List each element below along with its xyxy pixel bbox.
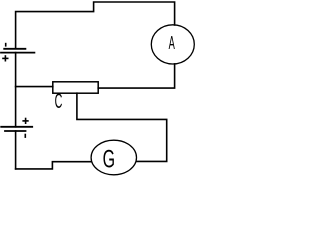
battery B2 bbox=[1, 127, 32, 131]
wire bbox=[16, 2, 175, 48]
label minus of B2 bbox=[25, 134, 27, 138]
label plus of B2 bbox=[22, 118, 28, 124]
label minus of B1 bbox=[5, 43, 7, 47]
wire bbox=[16, 162, 92, 169]
wire bbox=[98, 64, 174, 88]
wire bbox=[15, 53, 17, 127]
wire bbox=[77, 93, 167, 161]
wire bbox=[15, 131, 17, 169]
svg-text:C: C bbox=[55, 89, 63, 113]
label plus of B1 bbox=[2, 55, 8, 61]
battery B1 bbox=[1, 49, 34, 53]
ammeter A1 bbox=[151, 25, 194, 64]
svg-text:G: G bbox=[103, 146, 115, 173]
svg-text:A: A bbox=[169, 34, 175, 54]
wire bbox=[16, 86, 53, 88]
galvanometer G1 bbox=[91, 140, 136, 175]
resistor C (rheostat box) bbox=[53, 82, 98, 93]
